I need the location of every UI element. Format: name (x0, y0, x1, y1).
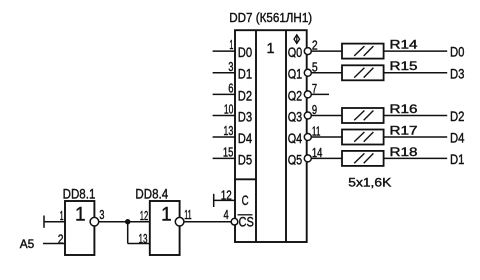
svg-text:1: 1 (60, 209, 64, 223)
svg-text:D0: D0 (450, 44, 465, 60)
svg-text:R17: R17 (390, 123, 418, 137)
svg-text:C: C (242, 192, 249, 208)
svg-text:15: 15 (223, 146, 234, 160)
svg-text:D4: D4 (450, 130, 465, 146)
svg-text:D0: D0 (238, 44, 253, 60)
svg-text:DD8.4: DD8.4 (135, 185, 168, 201)
svg-text:1: 1 (161, 204, 172, 225)
svg-text:12: 12 (140, 209, 149, 223)
svg-text:1: 1 (229, 38, 233, 52)
svg-text:5: 5 (312, 60, 318, 74)
svg-text:6: 6 (228, 82, 233, 96)
svg-text:2: 2 (312, 39, 318, 53)
svg-text:D3: D3 (238, 108, 253, 124)
svg-text:12: 12 (221, 188, 232, 202)
svg-text:1: 1 (75, 204, 86, 225)
svg-text:DD8.1: DD8.1 (63, 185, 96, 201)
svg-text:A5: A5 (20, 237, 35, 251)
svg-text:7: 7 (312, 82, 317, 96)
svg-text:1: 1 (266, 41, 274, 57)
svg-text:14: 14 (312, 146, 323, 160)
svg-text:D2: D2 (238, 87, 253, 103)
svg-text:R16: R16 (390, 102, 418, 116)
svg-text:2: 2 (58, 232, 64, 246)
svg-text:D1: D1 (238, 66, 253, 82)
svg-text:R18: R18 (390, 145, 418, 159)
svg-text:D5: D5 (238, 151, 253, 167)
svg-text:4: 4 (224, 208, 229, 222)
svg-text:D2: D2 (450, 108, 465, 124)
svg-text:13: 13 (139, 232, 148, 246)
svg-text:5x1,6K: 5x1,6K (348, 175, 391, 189)
svg-text:R14: R14 (390, 38, 418, 52)
svg-text:11: 11 (312, 125, 321, 139)
svg-text:3: 3 (228, 60, 233, 74)
svg-text:CS: CS (239, 214, 254, 229)
svg-text:11: 11 (184, 208, 192, 222)
svg-text:DD7 (К561ЛН1): DD7 (К561ЛН1) (229, 10, 312, 25)
svg-text:10: 10 (224, 103, 234, 117)
svg-text:9: 9 (312, 103, 317, 117)
svg-text:D4: D4 (238, 130, 253, 146)
svg-text:13: 13 (223, 124, 233, 138)
svg-text:R15: R15 (390, 59, 418, 73)
svg-text:D3: D3 (450, 65, 465, 81)
svg-text:D1: D1 (450, 151, 465, 167)
svg-text:3: 3 (99, 208, 104, 222)
